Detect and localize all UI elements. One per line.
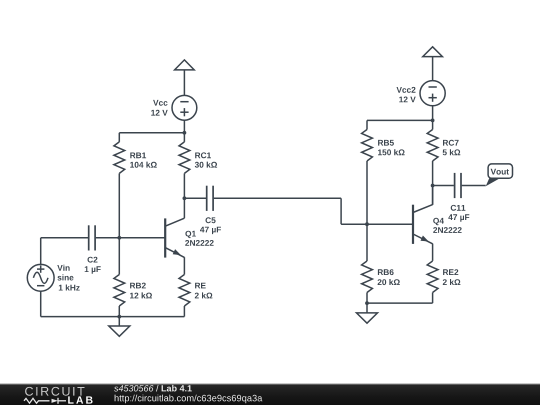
label RC7 5 kOhm [443, 140, 461, 156]
node Vcc rail [183, 131, 187, 135]
node base divider [117, 236, 121, 240]
label RE 2 kOhm [195, 283, 213, 299]
footer url [115, 395, 263, 404]
capacitor C2 1uF [41, 225, 120, 250]
resistor RC1 30k [179, 133, 190, 218]
wire collector to C5 [184, 197, 206, 199]
power flag VCC2 (up arrow) [423, 47, 443, 81]
label RE2 2 kOhm [443, 269, 461, 285]
label RB2 12 kOhm [130, 283, 152, 299]
logo resistor diode [24, 398, 66, 404]
voltage source Vcc2 12V [420, 81, 445, 106]
footer bar [0, 382, 540, 405]
resistor RE 2k [179, 275, 190, 317]
label RB5 150 kOhm [378, 140, 405, 155]
label Vcc2 12 V [397, 87, 416, 102]
logo CIRCUIT [25, 387, 84, 396]
node ground right [365, 301, 369, 305]
voltage source Vcc 12V [172, 95, 197, 120]
resistor RB5 150k [362, 120, 373, 224]
label RB1 104 kOhm [130, 153, 157, 168]
footer title [114, 385, 192, 392]
node base Q4 [365, 222, 369, 226]
ground right [357, 303, 378, 323]
wire emitter rail bottom right [367, 302, 433, 304]
wire Vcc to node [183, 120, 185, 133]
wire emitter rail bottom left [41, 316, 185, 318]
flag Vout [486, 164, 513, 186]
label Q1 2N2222 [185, 231, 213, 246]
label C5 47 uF [200, 217, 221, 234]
label Vout [491, 169, 509, 175]
label C2 1 uF [85, 257, 101, 274]
wire rail to RB5 [367, 119, 433, 121]
resistor RB2 12k [114, 238, 125, 317]
node ground left [117, 315, 121, 319]
node collector Q1 [183, 196, 187, 200]
wire Vcc2 to node [432, 106, 434, 121]
label Q4 2N2222 [433, 218, 461, 233]
label C11 47 uF [448, 205, 469, 222]
capacitor C11 47uF [455, 173, 486, 198]
logo LAB [68, 396, 92, 403]
capacitor C5 47uF [207, 186, 213, 211]
label RB6 20 kOhm [378, 269, 400, 285]
node collector Q4 [431, 184, 435, 188]
resistor RB6 20k [362, 224, 373, 303]
wire collector to C11 [433, 185, 454, 187]
transistor Q4 2N2222 [413, 186, 433, 261]
source Vin sine 1kHz [27, 238, 54, 317]
wire base Q1 [119, 237, 165, 239]
resistor RB1 104k [114, 133, 125, 238]
transistor Q1 2N2222 [165, 218, 184, 274]
wire C5 to stage 2 base [214, 198, 413, 224]
label Vin sine 1 kHz [57, 265, 79, 291]
resistor RC7 5k [427, 120, 438, 204]
ground left [109, 317, 130, 337]
label Vcc 12 V [151, 100, 168, 116]
node Vcc2 rail [431, 119, 435, 123]
power flag VCC (up arrow) [175, 60, 195, 96]
label RC1 30 kOhm [195, 152, 217, 167]
resistor RE2 2k [427, 261, 438, 303]
wire rail to RB1 [119, 132, 184, 134]
